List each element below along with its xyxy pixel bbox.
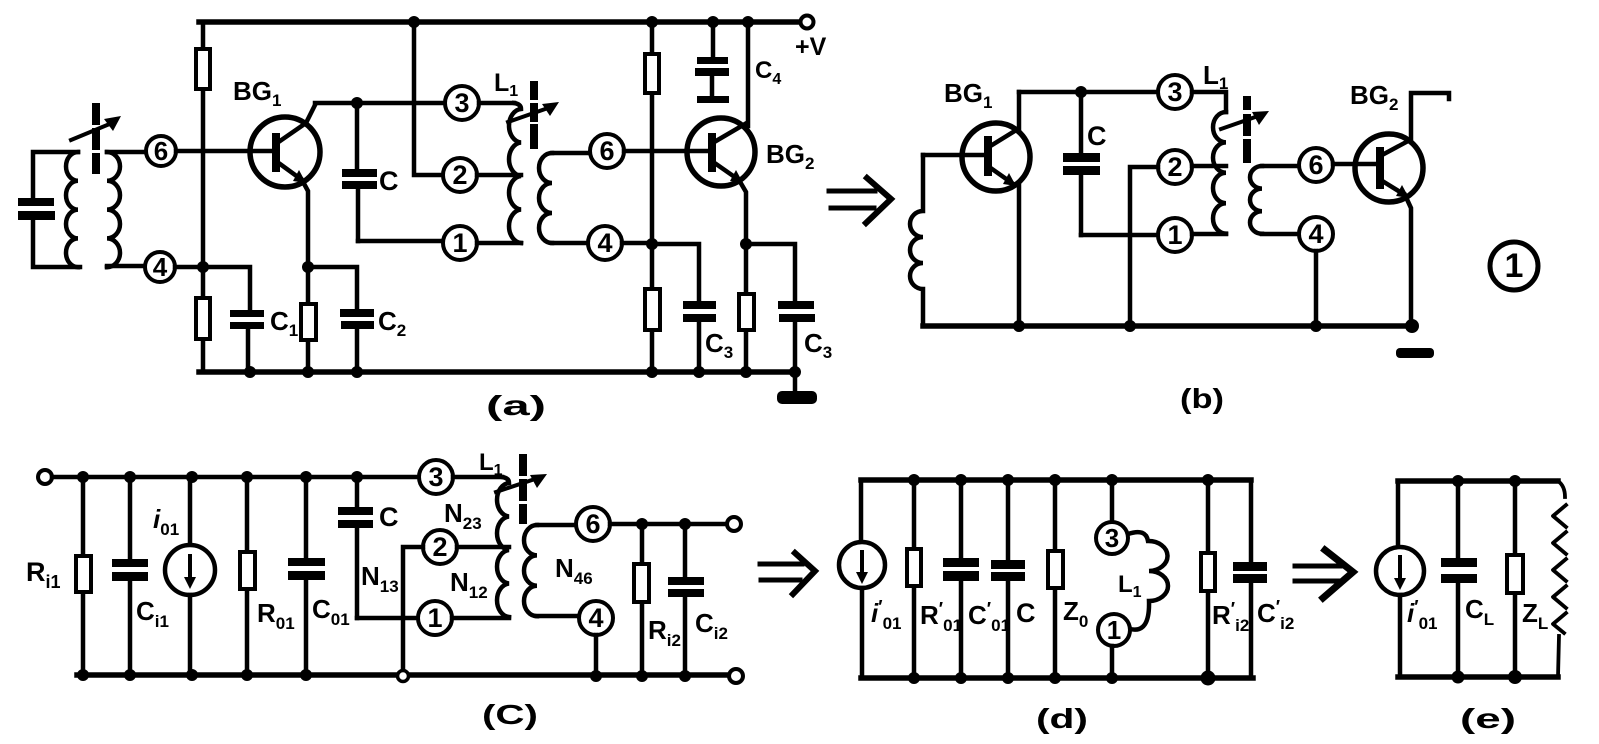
junction emitter BG1 (302, 261, 314, 273)
resistor Ri2 (634, 518, 649, 676)
ground (a) (777, 372, 817, 404)
wire collector line to node 3 (b) (1019, 90, 1158, 95)
wire junction x652 to C3 left branch (652, 244, 699, 301)
svg-text:(C): (C) (482, 699, 538, 730)
wire node 1 to L1 bottom (477, 241, 521, 246)
junction node4 line x652 (646, 238, 658, 250)
wire top rail (d) (861, 477, 1251, 483)
wire node 2 to L1 tap (b) (1192, 164, 1226, 169)
wire node 1 to L1 bottom (c) (452, 616, 509, 621)
wire node 6 to output (c) (610, 522, 727, 527)
transistor BG2 (b) (1355, 134, 1423, 202)
capacitor C (a) (342, 103, 377, 241)
wire node 3 to L1 primary (b) (1192, 92, 1226, 112)
resistor R divider upper (a) (645, 54, 659, 93)
wire right dashed edge (e) (1553, 481, 1566, 677)
node +V terminal (801, 16, 814, 29)
node 6 (c) (576, 507, 610, 541)
svg-text:2: 2 (452, 160, 467, 190)
resistor R'i2 (1201, 480, 1215, 678)
resistor Ri1 (76, 477, 91, 675)
junction dots top rail (c) (77, 471, 363, 483)
node figure number 1 (1490, 242, 1538, 290)
wire divider vertical x652 upper (650, 22, 655, 244)
svg-text:3: 3 (1105, 523, 1119, 553)
wire left bias vertical upper (a) (201, 22, 206, 267)
capacitor CL (1441, 481, 1477, 677)
svg-text:C: C (379, 502, 399, 532)
arrow tuning L1 (c) (496, 474, 547, 492)
node 1 (b) (1158, 218, 1192, 252)
inductor L1 primary (a) (509, 103, 521, 243)
junction C top (351, 97, 363, 109)
wire divider vertical x652 lower (650, 244, 655, 372)
wire emitter to C2 branch (308, 267, 357, 309)
wire emitter BG2 down (739, 180, 746, 244)
svg-text:(b): (b) (1180, 383, 1224, 414)
svg-text:(e): (e) (1460, 703, 1516, 734)
wire L1 secondary bottom to node 4 (552, 241, 588, 246)
core input transformer (92, 103, 100, 174)
arrow tuning L1 (b) (1221, 111, 1269, 129)
arrow tuning input transformer (71, 116, 121, 140)
resistor R divider lower (a) (645, 289, 660, 330)
svg-text:(a): (a) (486, 390, 546, 421)
resistor R emitter BG1 (301, 304, 316, 340)
wire L1b secondary bottom to node 4 (1262, 232, 1299, 237)
node 3 (b) (1158, 75, 1192, 109)
svg-text:1: 1 (427, 603, 442, 633)
wire base BG1 (b) (923, 153, 984, 158)
wire node 3 to L1 (c) (453, 475, 502, 480)
wire node 4 stub to rail (c) (594, 635, 599, 676)
resistor R bias lower (a) (196, 298, 210, 339)
svg-text:4: 4 (588, 603, 603, 633)
node 2 (a) (443, 158, 477, 192)
wire node 3 to L1 top (479, 101, 514, 106)
wire secondary top to node 6 (107, 150, 146, 155)
node 2 (b) (1158, 150, 1192, 184)
node 4 (b) (1299, 217, 1333, 251)
node 6 (b) (1299, 148, 1333, 182)
junction dots rails (e) (1452, 475, 1523, 684)
wire N46 top to node 6 (c) (537, 523, 576, 528)
wire node 2 to ground rail (b) (1130, 167, 1158, 326)
svg-text:6: 6 (585, 509, 600, 539)
node 6 (a) (146, 136, 176, 166)
svg-text:3: 3 (1167, 77, 1182, 107)
wire node 6 to base BG2 (b) (1333, 162, 1376, 167)
svg-text:C: C (1087, 121, 1107, 151)
transistor BG1 (b) (962, 123, 1030, 191)
junction bias/4 (197, 261, 209, 273)
node output top (c) (727, 517, 741, 531)
junction dots rail (b) (1013, 319, 1419, 333)
capacitor C2 (340, 309, 374, 372)
wire C bottom to node 1 (c) (357, 616, 418, 621)
node 3 (a) (445, 86, 479, 120)
wire emitter resistor branch (306, 267, 311, 372)
wire secondary bottom to node 4 (107, 264, 145, 269)
svg-text:+V: +V (795, 33, 827, 61)
arrow (a) to (b) (829, 178, 891, 223)
capacitor C3 left (683, 301, 716, 372)
wire bottom rail (b) (923, 323, 1413, 329)
inductor input secondary winding (107, 152, 120, 267)
wire node 2 to L1 tap (477, 173, 521, 178)
wire node 6 to base BG1 (176, 149, 273, 154)
wire collector BG2 to rail (746, 22, 751, 126)
svg-text:1: 1 (1107, 615, 1121, 645)
junction C top (b) (1075, 86, 1087, 98)
wire collector BG1b vertical (1017, 92, 1022, 129)
transistor BG2 (a) (687, 118, 755, 186)
junction dots bottom rail (d) (908, 671, 1216, 686)
svg-text:C: C (379, 166, 399, 196)
node 4 (c) (579, 601, 613, 635)
wire node 4 to C1 branch (175, 267, 250, 310)
arrow tuning L1 (a) (508, 102, 559, 122)
inductor L1 primary (b) (1213, 112, 1226, 234)
svg-text:4: 4 (1308, 219, 1323, 249)
current source i01 (165, 477, 215, 675)
wire node 6 to base BG2 (624, 149, 709, 154)
junction emitter BG2 (740, 238, 752, 250)
junction dots top rail (d) (908, 474, 1214, 486)
node output bottom (c) (729, 669, 743, 683)
resistor R emitter BG2 (739, 294, 754, 330)
arrow (c) to (d) (760, 553, 815, 594)
wire node 4 stub to rail (b) (1314, 251, 1319, 326)
wire collector BG2b to supply stub (1411, 93, 1449, 140)
wire emitter BG2b down (1405, 195, 1411, 326)
wire top rail (e) (1398, 478, 1558, 484)
resistor R'01 (907, 480, 921, 678)
capacitor input tank (a) (18, 198, 55, 220)
node 3 (d) (1096, 522, 1128, 554)
svg-text:(d): (d) (1036, 703, 1088, 734)
wire top rail (c) (52, 475, 419, 480)
wire bottom rail (e) (1398, 674, 1558, 680)
svg-text:3: 3 (428, 462, 443, 492)
resistor R bias upper (a) (196, 49, 210, 89)
capacitor Ci2 (668, 518, 704, 676)
svg-text:1: 1 (1167, 220, 1182, 250)
wire emitter BG1b vertical (1017, 186, 1022, 326)
capacitor C01 (288, 477, 325, 675)
wire bottom rail (a) (199, 369, 796, 375)
inductor input (b) (910, 155, 923, 326)
svg-text:6: 6 (1308, 150, 1323, 180)
capacitor C3 right (778, 301, 815, 372)
wire node 2 right to L1 tap (c) (457, 545, 509, 550)
inductor N46 secondary (c) (524, 525, 537, 616)
inductor L1 (d) (1128, 532, 1168, 630)
svg-text:3: 3 (454, 88, 469, 118)
node 6 (a right) (590, 134, 624, 168)
wire collector BG1 to node 3 (315, 101, 445, 106)
inductor input primary winding (66, 152, 78, 267)
inductor L1 secondary (a) (539, 153, 552, 243)
svg-text:2: 2 (432, 532, 447, 562)
capacitor C1 (230, 310, 264, 372)
node 1 (c) (418, 601, 452, 635)
wire emitter to C3 right branch (746, 244, 795, 301)
junction rail x748 (742, 16, 754, 28)
wire node 3 stub (d) (1110, 480, 1115, 522)
wire C bottom to node 1 (358, 239, 443, 244)
wire +V rail to node 2 (414, 22, 443, 175)
node 1 (a) (443, 226, 477, 260)
junction rail C4 (707, 16, 719, 28)
wire C bottom to node 1 (b) (1081, 233, 1158, 238)
wire input tank loop left (33, 152, 80, 267)
wire N46 bottom to node 4 (c) (537, 614, 579, 619)
node 4 (a) (145, 252, 175, 282)
capacitor C (d) (991, 480, 1025, 678)
core L1 (c) (519, 454, 527, 524)
junction dots bottom rail (c) (77, 669, 691, 682)
inductor L1 secondary (b) (1250, 166, 1262, 234)
inductor L1 primary (c) (497, 477, 509, 617)
wire node 1 stub (d) (1110, 646, 1115, 678)
junction ring tap2 ground (c) (398, 671, 409, 682)
resistor R01 (240, 477, 255, 675)
svg-text:C: C (1016, 598, 1036, 628)
arrow (d) to (e) (1295, 550, 1353, 598)
node 4 (a right) (588, 226, 622, 260)
capacitor C'01 (943, 480, 979, 678)
impedance ZL (1507, 481, 1523, 677)
core L1 (b) (1243, 96, 1251, 163)
svg-text:6: 6 (154, 136, 168, 166)
wire node 1 to L1 bottom (b) (1192, 232, 1226, 237)
node 3 (c) (419, 460, 453, 494)
wire bottom rail (c) (77, 672, 729, 678)
junction rail x652 (646, 16, 658, 28)
transistor BG1 (250, 105, 320, 187)
capacitor C (b) (1063, 92, 1100, 235)
svg-text:2: 2 (1167, 152, 1182, 182)
wire emitter BG1 down (302, 180, 308, 267)
ground (b) (1396, 348, 1434, 358)
impedance Z0 (1048, 480, 1063, 678)
wire node 4 to junction x652 (622, 241, 652, 246)
wire node 2 left to ground (c) (403, 547, 423, 675)
svg-text:4: 4 (153, 252, 168, 282)
capacitor C (c) (338, 477, 373, 618)
node input terminal (c) (38, 470, 52, 484)
junction rail x414 (408, 16, 420, 28)
svg-text:6: 6 (599, 136, 614, 166)
svg-text:4: 4 (597, 228, 612, 258)
wire bottom rail (d) (861, 675, 1253, 681)
wire top +V rail (a) (199, 19, 800, 25)
wire emitter resistor branch (a) (744, 244, 749, 372)
capacitor Ci1 (112, 477, 148, 675)
capacitor C'i2 (1233, 480, 1267, 678)
current source i'01 (d) (839, 480, 885, 678)
current source i'01 (e) (1376, 481, 1424, 677)
svg-text:1: 1 (1505, 247, 1524, 285)
capacitor C4 (695, 22, 729, 103)
node 2 (c) (423, 530, 457, 564)
wire L1 secondary top to node 6 (552, 151, 590, 156)
core L1 (a) (530, 81, 538, 149)
wire L1b secondary top to node 6 (1262, 164, 1299, 169)
junction dots bottom rail (a) (244, 366, 801, 378)
wire bias vertical lower (a) (201, 267, 206, 372)
svg-text:1: 1 (452, 228, 467, 258)
node 1 (d) (1098, 614, 1130, 646)
